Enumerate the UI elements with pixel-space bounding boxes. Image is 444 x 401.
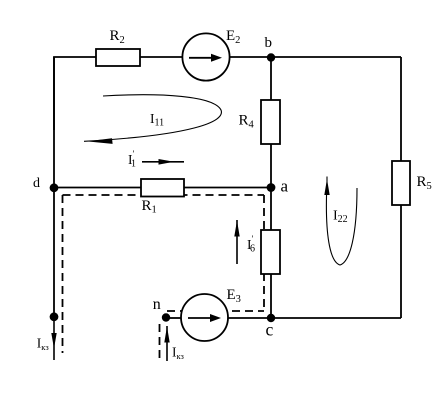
wire R1 to node a — [184, 187, 271, 189]
mesh current loop I11 — [84, 95, 221, 142]
current arrow I6' — [236, 220, 238, 264]
wire left side from node d to lower dot — [53, 188, 55, 317]
dashed horizontal above bottom wire n to x=264 — [167, 310, 264, 312]
resistor R4 — [261, 100, 280, 144]
dashed vertical below node n — [159, 324, 161, 361]
current arrow I1' — [142, 161, 184, 163]
short-circuit current arrow Ik3 middle (pointing up) — [166, 326, 168, 361]
dashed vertical left (x=62.5) — [62, 195, 64, 353]
resistor R5 — [392, 161, 410, 205]
source E3 — [181, 294, 228, 341]
svg-text:b: b — [265, 35, 273, 51]
wire R4 to node a — [270, 144, 272, 188]
svg-text:d: d — [33, 176, 40, 191]
svg-text:n: n — [153, 296, 161, 313]
wire node a down to R6 — [270, 188, 272, 230]
resistor R2 — [96, 49, 140, 66]
node d — [50, 183, 59, 192]
wire node b down to R4 — [270, 57, 272, 100]
resistor R6 (unlabeled box) — [261, 230, 280, 274]
node c — [267, 314, 275, 322]
wire top-left horizontal from corner to R2 — [54, 57, 96, 130]
source E2 — [182, 33, 229, 80]
wire E2 to node b — [230, 56, 271, 58]
wire R6 to node c — [270, 274, 272, 318]
wire bottom from node c to bottom-right corner — [271, 317, 401, 319]
svg-text:a: a — [281, 177, 289, 196]
node a — [267, 183, 276, 192]
node on left wire at bottom — [50, 312, 59, 321]
svg-text:c: c — [266, 319, 274, 339]
node b — [267, 53, 275, 61]
wire left side from top to node d — [53, 57, 55, 188]
resistor R1 — [141, 179, 184, 197]
dashed short-circuit path horizontal under d-a wire — [63, 194, 265, 196]
wire node n to E3 — [166, 317, 182, 319]
wire R2 to E2 — [140, 56, 182, 58]
wire node d to R1 — [54, 187, 141, 189]
node n — [162, 313, 170, 321]
short-circuit current arrow Ik3 left (pointing down) — [53, 317, 55, 360]
wire node b to top-right corner — [271, 56, 401, 58]
wire right side upper (corner to R5) — [400, 57, 402, 161]
mesh current loop I22 — [326, 177, 357, 266]
dashed vertical right (x=264) — [263, 195, 265, 311]
wire right side lower (R5 to bottom-right corner) — [400, 205, 402, 318]
wire E3 to node c — [228, 317, 271, 319]
